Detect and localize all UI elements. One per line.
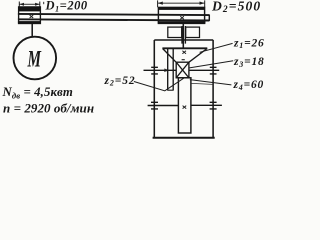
dimension D1 line with arrows xyxy=(19,3,40,6)
svg-text:Nдв = 4,5квт: Nдв = 4,5квт xyxy=(2,85,73,100)
leader line for z4 xyxy=(190,80,232,85)
motor M circle xyxy=(14,37,57,80)
intermediate shaft III right end xyxy=(189,69,219,71)
shaft-axis mark on gear z4 xyxy=(183,106,187,109)
shaft-axis mark below cone top xyxy=(182,51,186,54)
left lower bearing xyxy=(151,102,158,109)
gearbox casing left wall xyxy=(153,40,155,138)
pulley D2 xyxy=(158,7,206,23)
gearbox input shaft II xyxy=(182,24,184,49)
leader line for z3 xyxy=(189,61,234,68)
intermediate shaft III left end xyxy=(144,69,177,71)
svg-text:z1=26: z1=26 xyxy=(233,37,265,50)
leader line for z4 lower stroke xyxy=(191,83,213,84)
shaft-axis mark on pulley D1 xyxy=(30,15,34,18)
right lower bearing xyxy=(210,102,217,109)
leader line for z1 xyxy=(200,43,233,52)
gearbox casing bottom xyxy=(153,137,215,139)
belt (upper run) xyxy=(18,14,210,15)
belt (lower run) xyxy=(18,19,210,20)
output shaft IV left end xyxy=(148,105,179,107)
hub tick on shaft II inside cone xyxy=(182,59,185,61)
output shaft IV right end xyxy=(191,104,222,106)
svg-text:D1=200: D1=200 xyxy=(45,0,88,13)
bevel gear z1 cone left flank xyxy=(163,49,177,63)
belt right end cap xyxy=(208,15,210,21)
bevel gear z1 cone right flank xyxy=(189,49,207,63)
gear z2 rim (vertical bar pair) xyxy=(168,49,174,91)
dimension D1 extension lines xyxy=(19,2,40,9)
pulley D1 on motor shaft xyxy=(18,7,41,24)
shaft-axis mark on shaft III left xyxy=(165,69,168,72)
gearbox casing right wall xyxy=(212,40,214,138)
dimension D2 line with arrows xyxy=(158,2,205,5)
shaft-axis mark on pulley D2 xyxy=(180,16,184,19)
bearing housing box right of shaft II xyxy=(186,27,200,37)
apostrophe speck left of D1 label xyxy=(43,2,44,4)
gear z4 (tall rectangle) xyxy=(178,78,191,133)
motor shaft I xyxy=(31,24,33,38)
rolling bearing / gear z3 crossed box xyxy=(176,62,189,78)
coupling flange lines on shaft II xyxy=(182,26,185,44)
gear z2 rim bottom cap xyxy=(167,89,173,91)
svg-text:z4=60: z4=60 xyxy=(233,79,265,92)
dimension D2 extension lines xyxy=(158,0,205,7)
right upper bearing xyxy=(210,67,217,74)
svg-text:n = 2920 об/мин: n = 2920 об/мин xyxy=(3,100,94,115)
bearing housing box left of shaft II xyxy=(168,27,182,37)
svg-text:z3=18: z3=18 xyxy=(233,56,265,69)
svg-text:M: M xyxy=(27,46,42,71)
leader line for z2 xyxy=(134,78,184,91)
svg-text:z2=52: z2=52 xyxy=(104,75,136,88)
svg-text:D2=500: D2=500 xyxy=(211,0,261,15)
left upper bearing xyxy=(151,67,158,74)
gearbox casing top xyxy=(154,39,213,41)
bevel gear z1 cone top edge xyxy=(162,47,207,49)
